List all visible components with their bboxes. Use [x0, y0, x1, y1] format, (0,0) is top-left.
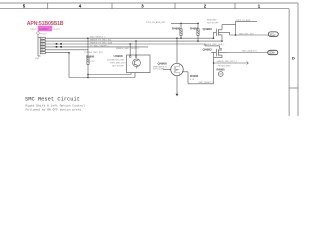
- svg-text:BSS138W: BSS138W: [207, 20, 217, 22]
- svg-text:Renew: Renew: [40, 33, 47, 35]
- svg-text:SMBUS_P3_SMC_SDA: SMBUS_P3_SMC_SDA: [90, 41, 113, 44]
- svg-text:SMC_RESET_L: SMC_RESET_L: [199, 82, 215, 84]
- svg-text:P3V3_S5_AON: P3V3_S5_AON: [236, 19, 251, 22]
- off page hook: [247, 62, 249, 65]
- ground arrow: [176, 94, 179, 97]
- U4900 pin circles: [129, 56, 131, 58]
- off-page oval SCL: [268, 32, 278, 36]
- zone numbers 5 4 3 2 1: [23, 4, 261, 9]
- svg-text:R4903: R4903: [190, 74, 199, 78]
- junction Q4980 source on W2: [221, 40, 222, 41]
- Q4900 right elbow wire: [182, 72, 214, 84]
- junction on W3: [130, 43, 131, 44]
- vertical from rail corner: [235, 21, 237, 35]
- renew circle annotation: [37, 32, 40, 35]
- svg-text:16: 16: [41, 44, 43, 46]
- wire W3 net SMBUS SDA row: [45, 43, 205, 45]
- junction R4981 bottom: [197, 40, 198, 41]
- junction on W1 at R4900: [87, 38, 88, 39]
- RST wire right: [214, 62, 247, 64]
- testpoint circle TP4900: [218, 72, 223, 77]
- magenta highlight box: [38, 26, 52, 31]
- svg-text:R4905: R4905: [217, 67, 226, 71]
- top rail wire: [171, 22, 199, 24]
- svg-text:PWR_SMC_RST: PWR_SMC_RST: [110, 62, 126, 64]
- svg-text:SCL>: SCL>: [270, 32, 276, 36]
- connector pin boxes: [40, 37, 45, 54]
- Q4900 gate stub: [163, 68, 171, 70]
- svg-text:R4980: R4980: [172, 26, 181, 30]
- resistor R4900 body: [87, 38, 89, 78]
- Q4900 emitter wire down: [176, 76, 178, 95]
- svg-text:SMC Reset Circuit: SMC Reset Circuit: [25, 97, 80, 103]
- svg-text:20: 20: [41, 50, 43, 52]
- right page border: [289, 3, 298, 116]
- svg-text:Q4900: Q4900: [158, 62, 168, 66]
- svg-text:SDA>: SDA>: [269, 51, 276, 55]
- resistor R4981: [197, 23, 199, 41]
- junction on vertical: [213, 62, 214, 63]
- transistor Q4900 circle: [171, 63, 183, 75]
- wire W1 net P3V3S5 row: [45, 37, 213, 39]
- transistor Q4980: [214, 25, 236, 41]
- svg-text:4.7K: 4.7K: [90, 61, 95, 63]
- svg-text:SMBUS_P3_SMC_SCL: SMBUS_P3_SMC_SCL: [90, 40, 113, 42]
- svg-text:1 of 1: 1 of 1: [54, 28, 61, 31]
- off-page oval SDA: [268, 50, 278, 54]
- U4900 box: [127, 55, 150, 73]
- svg-text:U4900: U4900: [114, 54, 123, 58]
- svg-text:Followed by ON OFF button pres: Followed by ON OFF button press.: [26, 107, 84, 111]
- svg-text:P3V3_S5_AON_RST: P3V3_S5_AON_RST: [146, 21, 166, 24]
- svg-text:R4981: R4981: [190, 26, 199, 30]
- svg-text:D: D: [292, 56, 295, 60]
- svg-text:18: 18: [41, 47, 43, 49]
- svg-text:SMBUS_SMC_ONOFF_L: SMBUS_SMC_ONOFF_L: [116, 48, 140, 50]
- pin1 link line: [37, 34, 39, 37]
- series resistor pads on W3: [56, 43, 58, 45]
- svg-text:SMC_SDA_3V3: SMC_SDA_3V3: [242, 49, 258, 52]
- svg-text:12: 12: [41, 38, 43, 40]
- series resistor pads on W4: [56, 46, 58, 48]
- page background: [0, 0, 300, 116]
- wire W6 row elbow down: [45, 53, 88, 78]
- junction on W2: [135, 40, 136, 41]
- junction dots at R4900 bottom: [87, 74, 88, 75]
- transistor Q4982: [211, 49, 228, 84]
- wire from R4900 to U4900 lower pins: [88, 73, 135, 78]
- svg-text:Q4982: Q4982: [203, 47, 213, 51]
- keyboard connector J4800 bracket: [38, 37, 41, 56]
- junction: [235, 34, 236, 35]
- resistor R4980: [180, 23, 182, 38]
- wire W2 net SMBUS SCL row: [45, 40, 222, 42]
- svg-text:Right Shift & Left Option Cont: Right Shift & Left Option Control: [26, 103, 86, 107]
- Q4900 collector wire up: [176, 38, 178, 63]
- junction Q4980 left pin on W1: [213, 38, 214, 39]
- svg-text:SI1499DH-T1-GE3: SI1499DH-T1-GE3: [107, 59, 125, 61]
- wire W4 testpoint row: [45, 46, 148, 48]
- junction R4980 bottom: [180, 38, 181, 39]
- svg-text:Find: Find: [31, 28, 36, 31]
- svg-text:14: 14: [41, 41, 43, 43]
- Q4982 top feed wire: [205, 44, 220, 49]
- svg-text:Q4980: Q4980: [203, 27, 213, 31]
- top border ruler band: [0, 3, 298, 9]
- U4900 internal transistor circle: [133, 59, 141, 69]
- svg-text:NOT STUFF: NOT STUFF: [207, 22, 219, 24]
- wire W5 row to R4900: [45, 49, 88, 51]
- svg-text:SMC_SCL_3V3: SMC_SCL_3V3: [239, 33, 254, 35]
- U4900 top pin wires: [130, 41, 136, 55]
- svg-text:TP_SMC_ONOFF_L: TP_SMC_ONOFF_L: [90, 45, 110, 47]
- junction at W6 corner: [68, 52, 69, 53]
- junction on W1 at Q4900: [176, 38, 177, 39]
- svg-text:NOT STUFF: NOT STUFF: [112, 65, 124, 67]
- svg-text:4.7K: 4.7K: [190, 79, 195, 81]
- SDA output wire: [228, 52, 268, 54]
- SCL output wire: [230, 34, 269, 36]
- svg-text:U4900: U4900: [39, 27, 48, 31]
- svg-text:22: 22: [41, 52, 43, 54]
- connector pin number marks: [41, 38, 43, 55]
- svg-text:KBD_SELECT_L: KBD_SELECT_L: [90, 37, 106, 39]
- junctions on rail: [180, 23, 181, 24]
- svg-text:(2)B: (2)B: [35, 58, 40, 60]
